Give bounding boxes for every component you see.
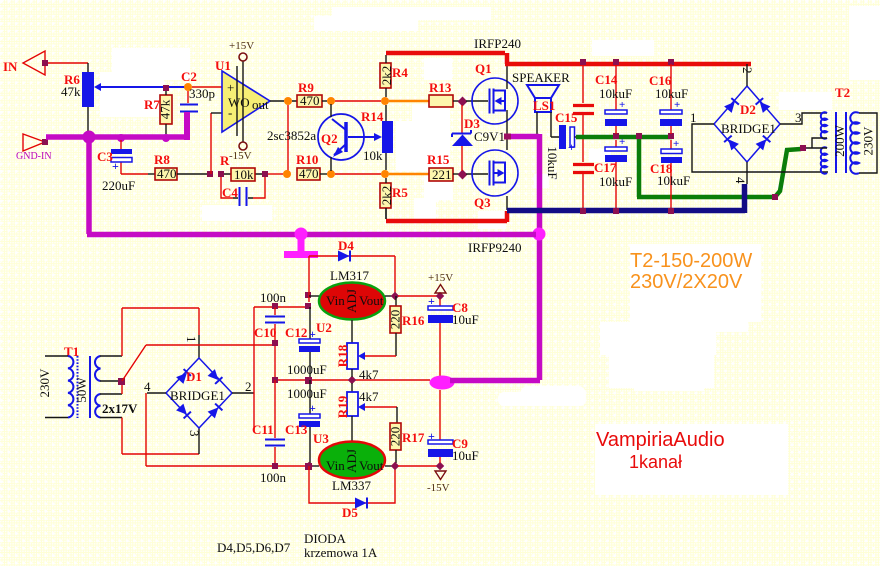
svg-text:220uF: 220uF — [102, 178, 135, 193]
wire T1 sec bottom to D1 pin3 — [100, 417, 122, 419]
wire U2 ADJ — [351, 320, 353, 343]
diode D4 — [309, 238, 395, 262]
resistor R7 — [144, 95, 172, 124]
node Q2 emitter (orange) — [327, 170, 335, 178]
potentiometer R14 — [361, 109, 393, 163]
svg-text:4: 4 — [733, 177, 748, 184]
capacitor C15 — [545, 110, 578, 180]
svg-text:R15: R15 — [427, 152, 450, 167]
white patches — [100, 6, 880, 495]
MOSFET Q3 (IRFP9240) — [468, 150, 521, 255]
node inverting input — [207, 171, 213, 177]
wire orange to R13 — [389, 100, 429, 102]
node R left — [218, 171, 224, 177]
svg-text:krzemowa 1A: krzemowa 1A — [304, 545, 378, 560]
junction bus/ground symbol — [295, 228, 308, 241]
wire R8 to feedback node — [177, 173, 207, 175]
svg-text:Q1: Q1 — [475, 61, 492, 76]
svg-text:Q2: Q2 — [321, 131, 338, 146]
capacitor C13 — [285, 380, 327, 466]
svg-text:Vout: Vout — [359, 458, 384, 473]
node green/diagonal — [772, 194, 778, 200]
svg-text:100n: 100n — [260, 470, 287, 485]
svg-text:IRFP240: IRFP240 — [474, 36, 521, 51]
wire orange to R15 — [389, 173, 429, 175]
svg-text:R7: R7 — [144, 97, 160, 112]
regulator U3 LM337 — [309, 431, 385, 493]
svg-text:R19: R19 — [335, 395, 350, 418]
wire speaker leads — [537, 112, 559, 137]
svg-text:R4: R4 — [392, 65, 408, 80]
junction gnd bus / R6 — [83, 131, 96, 144]
capacitor C9 — [428, 390, 479, 463]
node at R7 tap — [163, 85, 169, 91]
node C10/0V line — [272, 340, 278, 346]
potentiometer R6 — [61, 72, 101, 107]
wire node to Q1 gate — [466, 100, 488, 102]
svg-text:U3: U3 — [313, 431, 329, 446]
wire R4 leads — [385, 55, 387, 97]
wire collector node to R4 node — [335, 100, 381, 102]
wire magenta to output column — [450, 378, 540, 384]
wire R right to output node — [268, 173, 283, 175]
svg-text:VampiriaAudio: VampiriaAudio — [596, 429, 725, 451]
svg-text:10uF: 10uF — [452, 448, 479, 463]
svg-text:4k7: 4k7 — [359, 367, 379, 382]
svg-text:R18: R18 — [335, 344, 350, 367]
node 0V/ADJ — [348, 376, 356, 384]
wire -15V row — [398, 465, 440, 467]
resistor R9 — [297, 80, 322, 108]
-V bottom row — [146, 465, 309, 467]
svg-text:470: 470 — [299, 166, 319, 181]
capacitor C2 — [180, 69, 215, 112]
node navy/C15col — [580, 208, 586, 214]
wire D1 pin2 to +V column — [232, 392, 254, 394]
wire output node down to R10 row — [287, 105, 289, 174]
op-amp U1 — [215, 40, 270, 162]
note D4..D7 — [217, 531, 378, 560]
capacitor C10 — [254, 290, 287, 380]
svg-text:U2: U2 — [316, 320, 332, 335]
svg-text:T2-150-200W: T2-150-200W — [630, 250, 752, 272]
wire C2 to gnd bus (magenta) — [184, 112, 190, 140]
wire R6 top lead — [87, 63, 89, 72]
svg-text:R17: R17 — [402, 430, 425, 445]
capacitor C16 — [649, 64, 688, 134]
svg-text:+15V: +15V — [229, 40, 254, 52]
svg-text:IN: IN — [3, 59, 18, 74]
node green/C18 — [668, 133, 674, 139]
svg-text:Vin: Vin — [326, 458, 345, 473]
node R right — [262, 171, 268, 177]
bridge rectifier D1 — [166, 358, 232, 428]
resistor R17 — [387, 407, 424, 463]
svg-text:GND-IN: GND-IN — [16, 151, 52, 162]
node T1 centre tap — [118, 378, 125, 385]
svg-text:R16: R16 — [402, 313, 425, 328]
output ground junction (magenta ellipse) — [430, 376, 455, 390]
node green corner — [636, 133, 642, 139]
node -V/C13 — [305, 463, 312, 470]
svg-text:220: 220 — [387, 310, 402, 330]
wire Q3 drain / source — [506, 139, 508, 210]
svg-text:Vin: Vin — [326, 293, 345, 308]
node rail/C16 — [668, 59, 674, 65]
wire emitter node to R5 node — [335, 173, 381, 175]
node U2 Vin column — [305, 303, 311, 309]
wire node to Q3 gate — [466, 173, 488, 175]
node navy/C17 — [613, 208, 619, 214]
svg-text:R14: R14 — [361, 109, 384, 124]
svg-text:LM317: LM317 — [330, 268, 370, 283]
0V mid row — [275, 379, 430, 381]
red capacitor lower (mid to neg rail) — [573, 139, 594, 208]
wire magenta output column — [537, 134, 543, 380]
node rail/C15 — [580, 59, 586, 65]
svg-text:230V/2X20V: 230V/2X20V — [630, 271, 743, 293]
potentiometer R18 — [335, 343, 396, 382]
zener diode D3 — [452, 105, 505, 171]
node Vout — [391, 292, 399, 300]
wire R18 bottom to 0V — [351, 369, 353, 377]
wire R14 leads — [385, 105, 387, 170]
wire D4 loop right — [394, 256, 396, 296]
svg-text:1: 1 — [690, 110, 697, 125]
node rail/C14 — [613, 59, 619, 65]
wire T1 sec top to D1 pin1 — [100, 355, 122, 357]
svg-text:10kuF: 10kuF — [545, 146, 560, 179]
svg-text:U1: U1 — [215, 58, 231, 73]
wire +V column — [253, 307, 255, 432]
svg-text:ADJ: ADJ — [344, 289, 359, 313]
wire U3 Vout — [385, 465, 392, 467]
junction gnd bus / C3 — [117, 134, 125, 142]
red capacitor upper (rail to mid) — [573, 66, 594, 135]
svg-text:+: + — [428, 429, 435, 443]
svg-text:D5: D5 — [342, 505, 358, 520]
node Q2 collector (orange) — [327, 97, 335, 105]
svg-text:2: 2 — [245, 379, 252, 394]
wire C3 to R8 — [121, 173, 148, 175]
svg-text:Vout: Vout — [359, 293, 384, 308]
svg-text:C12: C12 — [285, 325, 307, 340]
svg-text:C3: C3 — [97, 149, 113, 164]
svg-text:D2: D2 — [740, 102, 756, 117]
wire R5 leads — [385, 178, 387, 219]
svg-text:+: + — [309, 327, 316, 341]
svg-text:1kanał: 1kanał — [629, 452, 682, 472]
svg-text:C11: C11 — [252, 422, 274, 437]
svg-text:C9V1: C9V1 — [474, 129, 505, 144]
speaker LS1 — [512, 70, 570, 113]
svg-text:10k: 10k — [363, 148, 383, 163]
svg-text:C10: C10 — [254, 325, 276, 340]
svg-text:ADJ: ADJ — [344, 449, 359, 473]
node U3 Vin — [305, 462, 313, 470]
green mid wire — [576, 135, 672, 140]
ground symbol (magenta) — [298, 237, 305, 252]
svg-text:1000uF: 1000uF — [287, 362, 327, 377]
svg-text:4k7: 4k7 — [359, 389, 379, 404]
svg-text:330p: 330p — [189, 86, 215, 101]
resistor R15 — [427, 152, 453, 182]
node Vout U3 — [391, 462, 399, 470]
wire R19 bottom to U3 ADJ — [351, 416, 353, 442]
svg-text:C4: C4 — [222, 185, 238, 200]
svg-text:10uF: 10uF — [452, 312, 479, 327]
junction gnd bus / R7 — [162, 134, 170, 142]
node R4/R14 (orange) — [381, 97, 389, 105]
svg-text:220: 220 — [387, 427, 402, 447]
svg-text:3: 3 — [795, 110, 802, 125]
svg-text:47k: 47k — [61, 84, 81, 99]
node +15V/C8 — [436, 292, 444, 300]
junction output node — [504, 134, 511, 140]
svg-text:R9: R9 — [298, 80, 314, 95]
resistor R4 — [379, 63, 408, 88]
svg-text:470: 470 — [300, 93, 320, 108]
node 0V/C12 — [305, 377, 312, 384]
node C10 top — [272, 303, 278, 309]
bottom red rail of output stage — [386, 211, 507, 222]
resistor R10 — [296, 152, 320, 181]
svg-text:D4: D4 — [338, 238, 354, 253]
bridge rectifier D2 — [714, 86, 780, 162]
diode D5 — [342, 498, 367, 521]
svg-text:LS1: LS1 — [533, 98, 555, 113]
svg-text:3: 3 — [187, 430, 202, 437]
wire D5 loop — [309, 466, 395, 503]
svg-text:+: + — [673, 138, 679, 150]
wire R15 to D3 node — [453, 173, 459, 175]
svg-text:+15V: +15V — [428, 272, 453, 284]
svg-text:+: + — [112, 159, 119, 173]
svg-text:1: 1 — [184, 336, 199, 343]
svg-text:WO: WO — [228, 95, 250, 110]
svg-text:10kuF: 10kuF — [599, 86, 632, 101]
svg-text:-15V: -15V — [229, 150, 252, 162]
capacitor C14 — [595, 65, 632, 134]
wire D4 loop left — [308, 256, 310, 302]
svg-text:2sc3852a: 2sc3852a — [267, 128, 316, 143]
wire centre tap diagonal to 0V line — [122, 345, 146, 381]
capacitor C4 with loop — [221, 177, 265, 206]
svg-text:50W: 50W — [74, 377, 89, 403]
wire ground bus horizontal (magenta) — [87, 232, 536, 238]
svg-text:out: out — [252, 97, 269, 112]
node U1 output (orange) — [284, 97, 292, 105]
node C2 (orange) — [184, 83, 192, 91]
wire T1 centre tap — [100, 381, 122, 394]
wire D2 pin4 to navy rail — [746, 162, 748, 184]
wire R10 to Q2 emitter node — [320, 173, 327, 175]
wire +V row to U2 — [254, 306, 308, 308]
node 0V/C10 — [272, 377, 278, 383]
negative rail (navy) — [507, 184, 745, 213]
svg-text:2x17V: 2x17V — [102, 401, 138, 416]
wire to U1 - input — [210, 113, 212, 174]
power arrow -15V — [427, 471, 450, 494]
transistor Q2 — [267, 104, 382, 171]
svg-text:R13: R13 — [429, 80, 452, 95]
power arrow +15V — [428, 272, 453, 293]
svg-text:1000uF: 1000uF — [287, 386, 327, 401]
node navy/C18 — [668, 208, 674, 214]
capacitor C3 — [97, 140, 135, 193]
transformer T1 — [37, 344, 138, 418]
svg-text:D1: D1 — [186, 369, 202, 384]
svg-text:470: 470 — [157, 166, 177, 181]
junction output/ground bus — [533, 228, 546, 241]
svg-text:C13: C13 — [285, 422, 308, 437]
green lower horizontal — [637, 195, 775, 200]
svg-text:+: + — [568, 140, 575, 154]
svg-text:BRIDGE1: BRIDGE1 — [170, 388, 225, 403]
resistor R (10k feedback) — [220, 153, 262, 182]
svg-text:10kuF: 10kuF — [655, 86, 688, 101]
svg-text:D4,D5,D6,D7: D4,D5,D6,D7 — [217, 540, 291, 555]
green diagonal to T2 centre tap — [775, 149, 801, 197]
node -V/C11 — [272, 463, 278, 469]
node R5/R14 (orange) — [381, 170, 389, 178]
svg-text:+: + — [309, 401, 316, 415]
wire R6 wiper (blue) — [99, 86, 188, 88]
transformer T2 — [806, 85, 877, 174]
capacitor C18 — [650, 138, 690, 209]
wire IN to R6 — [48, 62, 88, 64]
node -15V/C9 — [436, 462, 444, 470]
svg-text:DIODA: DIODA — [304, 531, 346, 546]
svg-text:-15V: -15V — [427, 482, 450, 494]
wire R9 to Q2 collector node — [322, 100, 327, 102]
node D3 bottom — [458, 170, 468, 180]
svg-text:4: 4 — [144, 379, 151, 394]
green vertical — [637, 139, 642, 197]
wire +15V row — [398, 295, 440, 297]
capacitor C11 — [252, 380, 287, 485]
svg-text:LM337: LM337 — [332, 478, 372, 493]
svg-text:T2: T2 — [835, 85, 850, 100]
svg-text:C17: C17 — [594, 160, 617, 175]
wire C2 node to U1 + input — [192, 86, 222, 88]
wire R13 to D3 node — [453, 100, 459, 102]
wire D2 pin3 to T2 upper winding — [780, 113, 827, 124]
svg-text:+: + — [227, 80, 234, 95]
wire D1 pin4 to -V row — [147, 392, 166, 394]
svg-text:SPEAKER: SPEAKER — [512, 70, 570, 85]
regulator U2 LM317 — [309, 268, 385, 335]
note VampiriaAudio (red) — [596, 429, 725, 472]
positive rail (thick red) — [386, 53, 751, 64]
connector GND-IN — [16, 134, 52, 162]
potentiometer R19 — [335, 383, 397, 418]
svg-text:100n: 100n — [260, 290, 287, 305]
node green/T2 tap — [800, 145, 806, 151]
wire R6 bottom lead — [87, 107, 89, 134]
svg-text:230V: 230V — [860, 126, 875, 156]
wire output to magenta column — [507, 134, 539, 140]
svg-text:C14: C14 — [595, 72, 618, 87]
capacitor C17 — [594, 136, 632, 208]
capacitor C8 — [428, 294, 479, 376]
svg-text:200W: 200W — [832, 124, 847, 157]
svg-text:10kuF: 10kuF — [599, 174, 632, 189]
wire 0V line to C10 — [146, 344, 275, 346]
node (orange) on lower row — [283, 170, 291, 178]
node green/C14 — [613, 133, 619, 139]
svg-text:Q3: Q3 — [474, 195, 491, 210]
connector IN — [3, 51, 48, 75]
wire gnd bus horizontal (magenta) — [46, 134, 190, 140]
svg-text:+: + — [619, 136, 625, 148]
wire gnd vertical to lower bus (magenta) — [86, 137, 92, 234]
wire Q1 drain / source — [506, 64, 508, 135]
node D3 top — [458, 97, 468, 107]
wire C15 to red cap column — [575, 136, 579, 138]
resistor R13 — [429, 80, 453, 107]
svg-text:+: + — [428, 294, 435, 308]
svg-text:230V: 230V — [37, 368, 52, 398]
svg-text:C2: C2 — [181, 69, 197, 84]
capacitor C12 — [285, 307, 327, 380]
resistor R5 — [379, 183, 408, 208]
svg-text:10k: 10k — [234, 167, 254, 182]
wire U2 Vout — [385, 295, 392, 297]
wire U1 output — [270, 100, 297, 102]
svg-text:R10: R10 — [296, 152, 318, 167]
wire R5 to rail — [385, 208, 387, 219]
svg-text:10kuF: 10kuF — [657, 173, 690, 188]
wire D2 pin2 to rail — [746, 64, 748, 86]
svg-text:R8: R8 — [154, 152, 170, 167]
resistor R16 — [387, 296, 424, 356]
MOSFET Q1 (IRFP240) — [472, 36, 521, 124]
note T2 rating (orange) — [630, 250, 752, 293]
svg-text:221: 221 — [432, 167, 452, 182]
resistor R8 — [154, 152, 177, 181]
svg-text:BRIDGE1: BRIDGE1 — [721, 121, 776, 136]
wire D2 pin1 to T2 lower winding — [692, 124, 828, 172]
wire R7 leads — [165, 91, 167, 134]
svg-text:IRFP9240: IRFP9240 — [468, 240, 521, 255]
svg-text:R5: R5 — [392, 185, 408, 200]
